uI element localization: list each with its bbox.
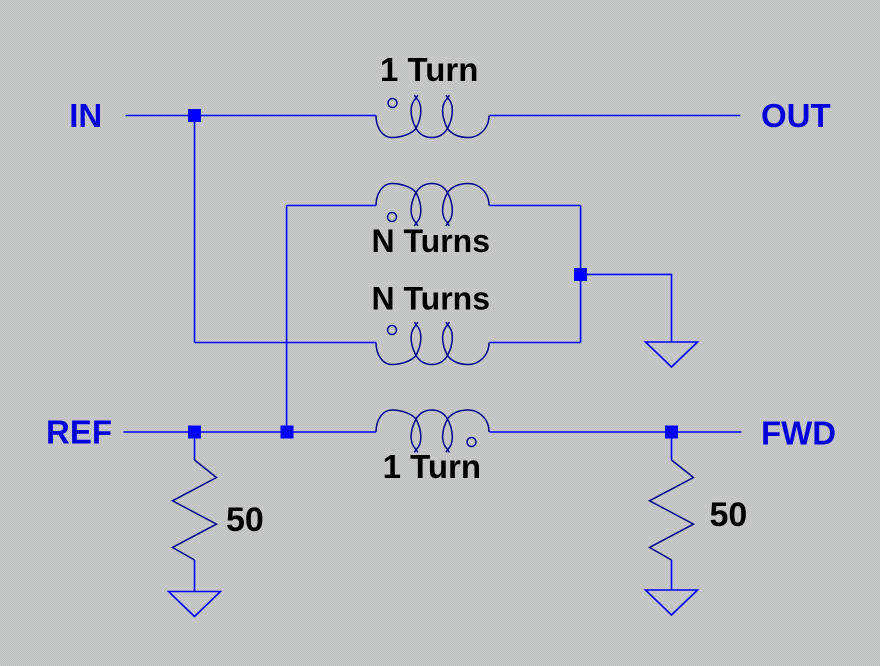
junction at IN node — [188, 109, 201, 122]
svg-text:1 Turn: 1 Turn — [383, 448, 481, 485]
svg-text:IN: IN — [69, 97, 102, 134]
wire REF to transformer T2 primary — [124, 431, 377, 433]
phasing dot of L3 — [388, 326, 397, 335]
wire top of sense transformer left — [287, 205, 376, 207]
svg-text:N Turns: N Turns — [372, 281, 491, 317]
wire junction to resistor R2 — [671, 439, 673, 461]
inductor L1 (1 Turn primary winding) — [376, 95, 489, 137]
inductor L3 (N Turns secondary, standard) — [376, 322, 489, 364]
inductor L4 (1 Turn secondary, flipped) — [376, 410, 489, 452]
junction REF resistor tap — [188, 426, 201, 439]
wire junction to resistor R1 — [194, 439, 196, 461]
wire R1 to ground — [194, 560, 196, 592]
inductor L2 (N Turns secondary, flipped) — [376, 184, 489, 226]
svg-text:50: 50 — [710, 496, 748, 534]
resistor R2 zigzag — [650, 460, 694, 560]
wire IN junction down to bottom coupling line — [194, 122, 196, 343]
junction FWD resistor tap — [665, 426, 678, 439]
wire T1 primary to OUT — [490, 115, 741, 117]
svg-text:50: 50 — [226, 501, 264, 539]
wire T2 to FWD — [490, 431, 742, 433]
phasing dot of L1 — [388, 99, 397, 108]
wire junction to ground stub — [581, 274, 672, 342]
phasing dot of L2 — [388, 213, 397, 222]
svg-text:1 Turn: 1 Turn — [380, 51, 478, 88]
wire left side of sense loop — [286, 206, 288, 433]
wire bottom coupling line right segment — [490, 342, 581, 344]
phasing dot of L4 — [467, 438, 476, 447]
junction sense loop tap — [281, 426, 294, 439]
wire R2 to ground — [671, 560, 673, 590]
wire right side of sense loop — [580, 206, 582, 343]
ground symbol (sense loop) — [646, 342, 698, 367]
wire IN to transformer T1 primary — [126, 115, 376, 117]
resistor R1 zigzag — [173, 460, 217, 560]
svg-text:OUT: OUT — [761, 97, 831, 134]
svg-text:REF: REF — [46, 414, 112, 451]
junction on sense loop right side — [574, 268, 587, 281]
ground symbol (R2) — [646, 590, 698, 615]
ground symbol (R1) — [169, 592, 221, 617]
wire bottom coupling line left segment — [195, 342, 377, 344]
wire top of sense loop right segment — [490, 205, 581, 207]
svg-text:FWD: FWD — [761, 415, 836, 452]
svg-text:N Turns: N Turns — [372, 223, 491, 259]
